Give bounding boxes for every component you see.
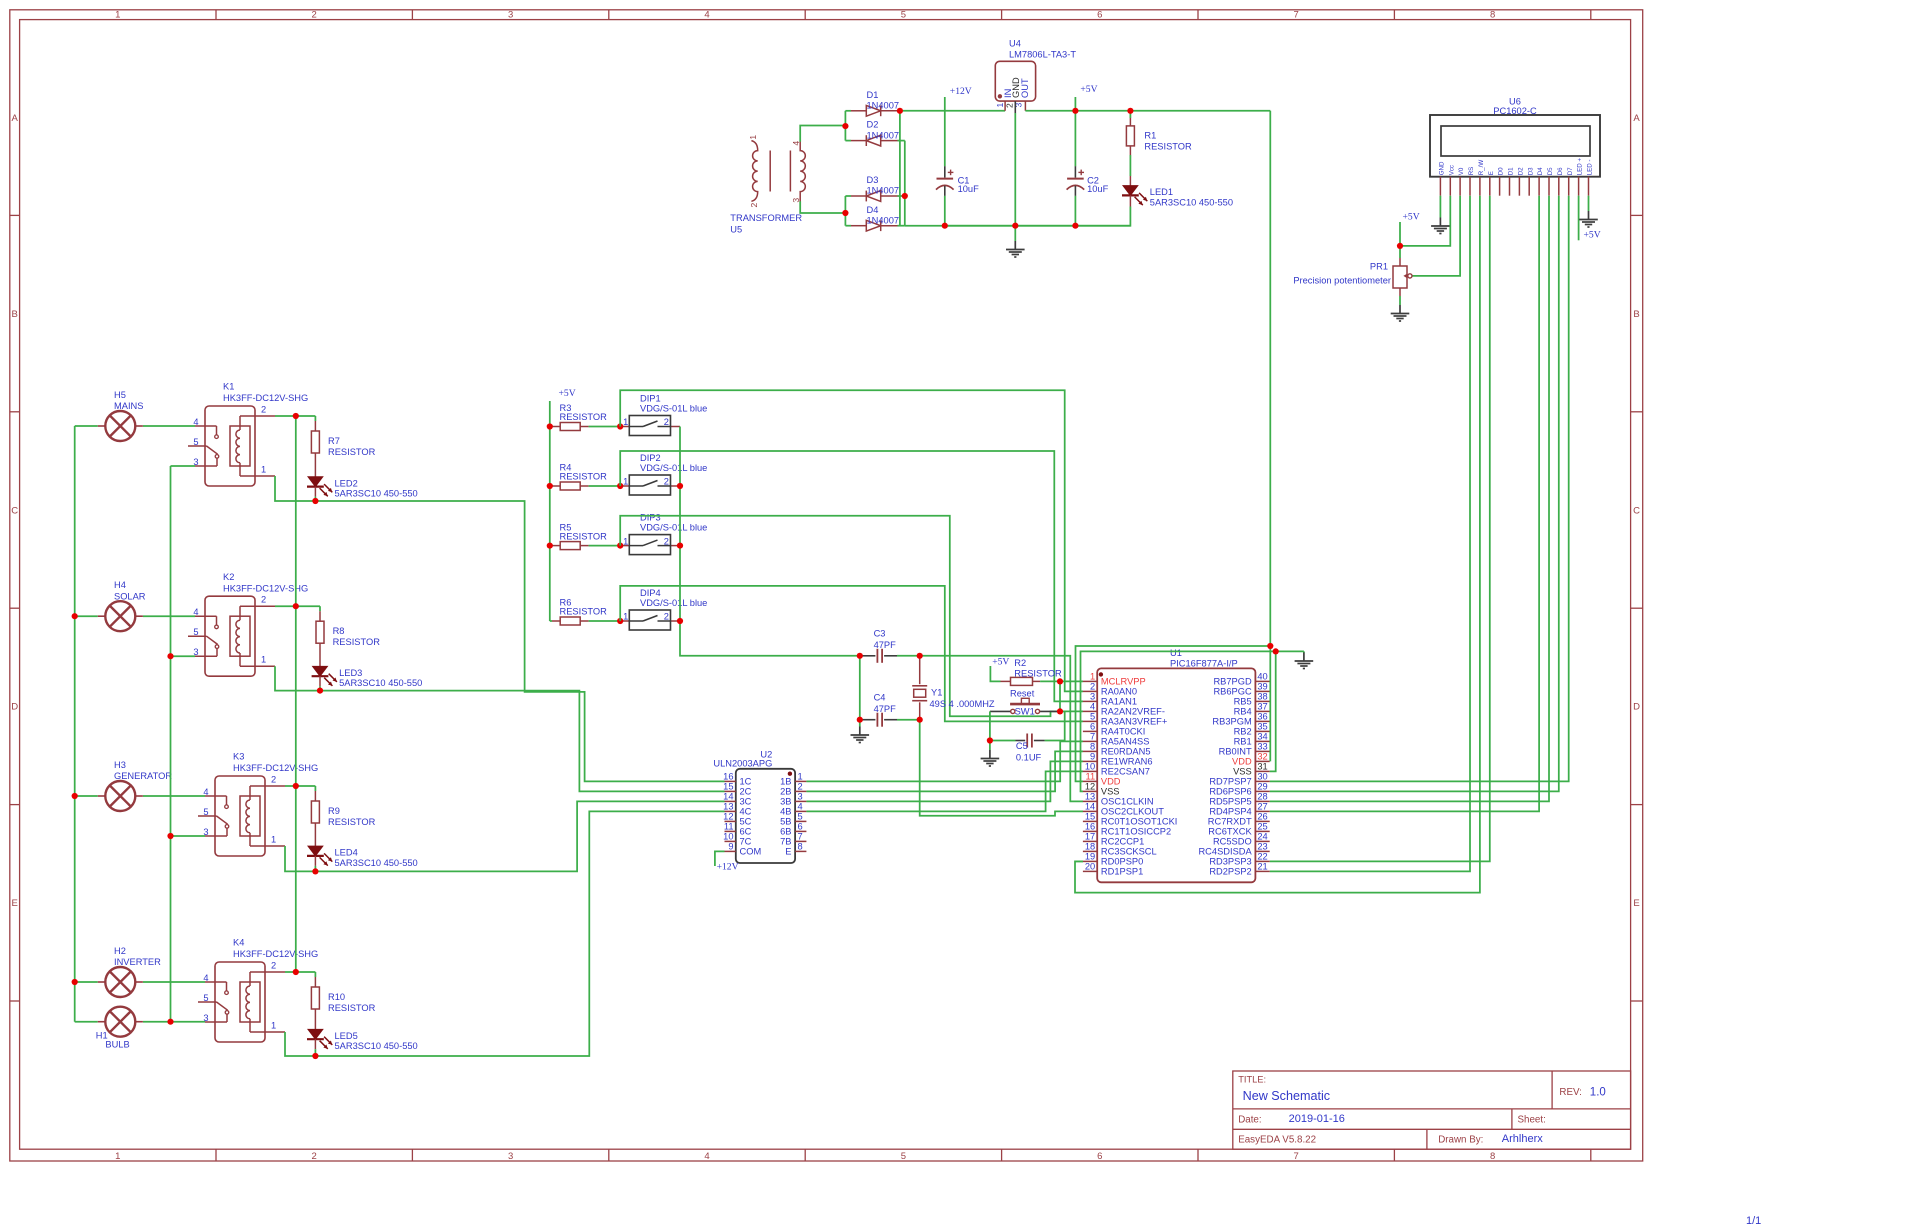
ground below C5 — [989, 750, 991, 759]
svg-text:13: 13 — [723, 802, 733, 812]
U1 pin 38 RB5 — [1255, 700, 1269, 702]
svg-text:1: 1 — [798, 772, 803, 782]
U1 pin 7 RA5AN4SS — [1083, 740, 1097, 742]
svg-text:E: E — [785, 847, 791, 857]
wire H5 to K1 pin4 — [143, 425, 195, 427]
svg-text:RB5: RB5 — [1234, 697, 1252, 707]
svg-text:PR1: PR1 — [1370, 262, 1388, 272]
transformer U5 — [751, 141, 757, 202]
U1 pin 25 RC6TXCK — [1255, 830, 1269, 832]
svg-text:1: 1 — [623, 477, 628, 487]
svg-text:U1: U1 — [1170, 648, 1182, 658]
relay K2 HK3FF-DC12V-SHG — [205, 596, 255, 676]
svg-text:4: 4 — [1090, 702, 1095, 712]
wire U6 D6 to U1 pin29 — [1270, 196, 1559, 792]
svg-text:11: 11 — [1086, 772, 1096, 782]
svg-text:1: 1 — [1090, 672, 1095, 682]
U2 pin 8 E — [795, 850, 806, 852]
svg-text:PIC16F877A-I/P: PIC16F877A-I/P — [1170, 659, 1238, 669]
svg-text:RC1T1OSICCP2: RC1T1OSICCP2 — [1101, 827, 1171, 837]
wire DIP4 pin1 over to U1 pin5 — [620, 586, 1083, 722]
U6 pin D7 — [1568, 177, 1570, 196]
svg-text:31: 31 — [1257, 762, 1267, 772]
junction dots R3-R5 +5V bus — [547, 423, 553, 429]
svg-text:2C: 2C — [740, 787, 752, 797]
U6 pin D6 — [1558, 177, 1560, 196]
svg-text:D5: D5 — [1547, 167, 1554, 175]
svg-text:R1: R1 — [1144, 131, 1156, 141]
wire R2 node to reset switch — [1059, 681, 1061, 711]
svg-text:15: 15 — [723, 782, 733, 792]
svg-text:5: 5 — [193, 627, 198, 637]
ground below C3/C4 — [859, 727, 861, 736]
svg-text:Drawn By:: Drawn By: — [1438, 1135, 1483, 1146]
svg-text:+5V: +5V — [1403, 211, 1420, 222]
junction dots DIP pin2 bus — [677, 483, 683, 489]
svg-text:8: 8 — [1490, 10, 1495, 21]
svg-text:RE0RDAN5: RE0RDAN5 — [1101, 747, 1151, 757]
IC U1 PIC16F877A-I/P — [1097, 668, 1255, 882]
svg-text:11: 11 — [724, 822, 734, 832]
wire transformer secondary bottom to bridge — [800, 201, 845, 213]
svg-text:RC0T1OSOT1CKI: RC0T1OSOT1CKI — [1101, 817, 1177, 827]
svg-text:1N4007: 1N4007 — [867, 215, 900, 225]
svg-text:V0: V0 — [1458, 167, 1465, 175]
svg-text:K3: K3 — [233, 752, 244, 762]
svg-text:RESISTOR: RESISTOR — [1014, 669, 1062, 679]
U2 pin 12 5C — [725, 820, 736, 822]
U6 pin RS — [1469, 177, 1471, 196]
svg-text:2: 2 — [798, 782, 803, 792]
svg-text:R10: R10 — [328, 992, 345, 1002]
U1 pin 15 RC0T1OSOT1CKI — [1083, 820, 1097, 822]
wire U6 Vcc to +5V node — [1400, 196, 1450, 246]
wire C5 node to ground — [989, 741, 991, 751]
U2 pin 4 4B — [795, 810, 806, 812]
junction dots U1 power — [1267, 643, 1273, 649]
title block — [1233, 1071, 1631, 1149]
svg-text:1N4007: 1N4007 — [867, 130, 900, 140]
ground below U6 LED- — [1588, 211, 1590, 220]
svg-text:RB1: RB1 — [1234, 737, 1252, 747]
wire +5V rail over U1 to pin11 — [1076, 646, 1271, 781]
svg-text:C5: C5 — [1016, 741, 1028, 751]
svg-text:8: 8 — [1090, 742, 1095, 752]
U6 pin D4 — [1538, 177, 1540, 196]
svg-text:H5: H5 — [114, 390, 126, 400]
U2 pin 16 1C — [725, 780, 736, 782]
svg-text:39: 39 — [1257, 682, 1267, 692]
svg-text:HK3FF-DC12V-SHG: HK3FF-DC12V-SHG — [223, 393, 308, 403]
net label +12V at U2 COM — [715, 851, 725, 866]
U6 pin LED + — [1578, 177, 1580, 196]
U6 pin LED - — [1588, 177, 1590, 196]
svg-text:47PF: 47PF — [874, 704, 897, 714]
svg-text:ULN2003APG: ULN2003APG — [713, 759, 772, 769]
wire gnd rail C1-C2 — [945, 225, 1076, 227]
svg-text:2: 2 — [664, 536, 669, 546]
wire K4 pin2 to R10 — [285, 971, 315, 973]
svg-text:2: 2 — [749, 203, 759, 208]
svg-text:RE2CSAN7: RE2CSAN7 — [1101, 767, 1150, 777]
diode D2 — [845, 140, 851, 142]
svg-text:RA3AN3VREF+: RA3AN3VREF+ — [1101, 717, 1167, 727]
wire U6 RS down to U1 pin21 — [1270, 196, 1470, 872]
U2 pin 2 2B — [795, 790, 806, 792]
U1 pin 13 OSC1CLKIN — [1083, 800, 1097, 802]
svg-text:TITLE:: TITLE: — [1238, 1075, 1266, 1085]
LED LED4 — [308, 846, 323, 856]
svg-text:LED2: LED2 — [335, 478, 358, 488]
resistor R7 — [314, 416, 316, 421]
U1 pin 40 RB7PGD — [1255, 680, 1269, 682]
svg-text:12: 12 — [1085, 782, 1095, 792]
svg-text:D7: D7 — [1567, 167, 1574, 175]
svg-text:1: 1 — [261, 464, 266, 474]
svg-text:9: 9 — [1090, 752, 1095, 762]
svg-text:2: 2 — [312, 1151, 317, 1162]
svg-text:RC7RXDT: RC7RXDT — [1208, 817, 1252, 827]
diode D4 — [845, 225, 851, 227]
svg-text:D1: D1 — [867, 90, 879, 100]
relay K1 HK3FF-DC12V-SHG — [205, 406, 255, 486]
svg-text:13: 13 — [1085, 792, 1095, 802]
svg-text:D2: D2 — [1518, 167, 1525, 175]
svg-text:34: 34 — [1257, 732, 1267, 742]
svg-text:32: 32 — [1257, 752, 1267, 762]
wire K4 pin1 to LED5 node — [285, 1032, 315, 1056]
svg-text:8: 8 — [1490, 1151, 1495, 1162]
svg-text:RC3SCKSCL: RC3SCKSCL — [1101, 847, 1157, 857]
junction dots power supply — [842, 123, 848, 129]
svg-text:HK3FF-DC12V-SHG: HK3FF-DC12V-SHG — [233, 763, 318, 773]
svg-text:RB4: RB4 — [1234, 707, 1252, 717]
DIP switch DIP3 VDG/S-01L blue — [620, 545, 629, 547]
svg-text:33: 33 — [1257, 742, 1267, 752]
svg-text:6: 6 — [1090, 722, 1095, 732]
svg-text:37: 37 — [1257, 702, 1267, 712]
ground below PR1 — [1399, 305, 1401, 314]
svg-text:Precision potentiometer: Precision potentiometer — [1293, 276, 1391, 286]
border frame — [10, 10, 1643, 1161]
svg-text:RB6PGC: RB6PGC — [1213, 687, 1252, 697]
net label +5V for R2 — [990, 666, 1000, 681]
svg-text:Arhlherx: Arhlherx — [1502, 1133, 1543, 1145]
net label +5V at U6 LED+ — [1578, 196, 1580, 241]
svg-text:17: 17 — [1085, 832, 1095, 842]
svg-text:RESISTOR: RESISTOR — [560, 412, 608, 422]
U6 pin D0 — [1499, 177, 1501, 196]
svg-text:DIP3: DIP3 — [640, 512, 661, 522]
svg-text:5: 5 — [193, 437, 198, 447]
DIP switch DIP4 VDG/S-01L blue — [620, 620, 629, 622]
svg-text:RESISTOR: RESISTOR — [560, 607, 608, 617]
svg-text:2: 2 — [312, 10, 317, 21]
wire DIP3 pin1 over to U1 pin4 — [620, 516, 1083, 716]
svg-text:3: 3 — [203, 1013, 208, 1023]
ground right of U1 — [1303, 651, 1305, 653]
svg-text:5: 5 — [798, 812, 803, 822]
wire gnd rail over U1 to pin12 — [1081, 651, 1276, 791]
U1 pin 18 RC3SCKSCL — [1083, 850, 1097, 852]
svg-text:3: 3 — [1090, 692, 1095, 702]
svg-text:R8: R8 — [333, 626, 345, 636]
wire H1 to K4 pin3 — [143, 1021, 205, 1023]
svg-text:DIP4: DIP4 — [640, 588, 661, 598]
svg-text:RA4T0CKI: RA4T0CKI — [1101, 727, 1145, 737]
potentiometer PR1 — [1399, 246, 1401, 258]
svg-text:22: 22 — [1257, 852, 1267, 862]
svg-text:6C: 6C — [740, 827, 752, 837]
junction dots lamp bus — [72, 613, 78, 619]
svg-text:RB2: RB2 — [1234, 727, 1252, 737]
diode D1 — [845, 110, 851, 112]
svg-text:7C: 7C — [740, 837, 752, 847]
wire U1 VSS pin31 to gnd rail — [1270, 651, 1304, 771]
svg-text:3B: 3B — [780, 797, 791, 807]
column ruler marks — [215, 10, 217, 20]
svg-text:D: D — [1633, 702, 1640, 713]
svg-text:10: 10 — [723, 832, 733, 842]
wire DIP1 pin1 over to U1 pin2 — [620, 390, 1083, 691]
LED LED2 — [308, 477, 323, 487]
wire K2 pin1 to LED3 node — [275, 666, 320, 690]
svg-text:+12V: +12V — [950, 86, 972, 97]
LED1 — [1129, 176, 1131, 186]
svg-text:3: 3 — [508, 1151, 513, 1162]
svg-text:20: 20 — [1085, 862, 1095, 872]
IC U2 ULN2003APG — [736, 769, 795, 863]
wire SW1 left to C5 node — [989, 711, 991, 740]
svg-text:4: 4 — [798, 802, 803, 812]
svg-text:36: 36 — [1257, 712, 1267, 722]
wire C4 node to ground — [859, 720, 861, 727]
svg-text:PC1602-C: PC1602-C — [1493, 106, 1537, 116]
resistor R6 — [550, 620, 552, 622]
svg-text:+5V: +5V — [559, 388, 576, 399]
U1 pin 9 RE1WRAN6 — [1083, 760, 1097, 762]
svg-text:C: C — [1633, 505, 1640, 516]
svg-text:19: 19 — [1085, 852, 1095, 862]
svg-text:38: 38 — [1257, 692, 1267, 702]
svg-text:MCLRVPP: MCLRVPP — [1101, 677, 1146, 687]
wire +5V rail right of U4 — [1025, 110, 1270, 112]
svg-text:RD3PSP3: RD3PSP3 — [1209, 857, 1251, 867]
svg-text:Y1: Y1 — [931, 688, 942, 698]
U1 pin 26 RC7RXDT — [1255, 820, 1269, 822]
U1 pin 11 VDD — [1083, 780, 1097, 782]
svg-text:9: 9 — [728, 842, 733, 852]
svg-text:Sheet:: Sheet: — [1518, 1114, 1546, 1125]
svg-text:D4: D4 — [1537, 167, 1544, 175]
svg-text:5: 5 — [901, 1151, 906, 1162]
wire U2 1B to U1 pin7 — [806, 741, 1083, 781]
svg-text:D0: D0 — [1498, 167, 1505, 175]
U1 pin 21 RD2PSP2 — [1255, 870, 1269, 872]
resistor R4 — [550, 485, 552, 487]
svg-text:D6: D6 — [1557, 167, 1564, 175]
svg-text:28: 28 — [1257, 792, 1267, 802]
svg-text:K1: K1 — [223, 382, 234, 392]
svg-text:INVERTER: INVERTER — [114, 957, 161, 967]
svg-text:HK3FF-DC12V-SHG: HK3FF-DC12V-SHG — [233, 949, 318, 959]
svg-text:RD4PSP4: RD4PSP4 — [1209, 807, 1251, 817]
svg-text:7: 7 — [1294, 10, 1299, 21]
svg-text:1C: 1C — [740, 777, 752, 787]
svg-text:1: 1 — [261, 655, 266, 665]
svg-text:15: 15 — [1085, 812, 1095, 822]
U2 pin 10 7C — [725, 840, 736, 842]
lamp H5 MAINS — [98, 425, 106, 427]
svg-text:24: 24 — [1257, 832, 1267, 842]
svg-text:40: 40 — [1257, 672, 1267, 682]
U6 pin E — [1489, 177, 1491, 196]
svg-text:R2: R2 — [1014, 658, 1026, 668]
svg-text:47PF: 47PF — [874, 640, 897, 650]
wire K2 pin2 to R8 — [275, 605, 320, 607]
junction dots crystal nodes — [857, 653, 863, 659]
svg-text:RD1PSP1: RD1PSP1 — [1101, 867, 1143, 877]
svg-text:12: 12 — [723, 812, 733, 822]
svg-text:+5V: +5V — [1584, 230, 1601, 241]
svg-text:0.1UF: 0.1UF — [1016, 753, 1042, 763]
wire K1 pin2 to R7 — [275, 415, 315, 417]
svg-text:2: 2 — [261, 595, 266, 605]
svg-text:16: 16 — [1085, 822, 1095, 832]
net label +12V — [944, 97, 946, 166]
resistor R9 — [314, 786, 316, 791]
lamp bus vertical wire — [74, 426, 76, 1022]
U4 pin 3 stub — [1024, 101, 1026, 111]
U1 pin 39 RB6PGC — [1255, 690, 1269, 692]
svg-text:VSS: VSS — [1233, 767, 1252, 777]
svg-text:7: 7 — [1090, 732, 1095, 742]
svg-text:LED5: LED5 — [335, 1031, 358, 1041]
svg-text:RESISTOR: RESISTOR — [328, 817, 376, 827]
wire C3 to C4 left vertical — [859, 656, 861, 720]
net label +5V above PR1 — [1399, 222, 1401, 246]
svg-text:MAINS: MAINS — [114, 401, 143, 411]
svg-text:3: 3 — [508, 10, 513, 21]
svg-text:2: 2 — [261, 404, 266, 414]
svg-text:5: 5 — [203, 993, 208, 1003]
svg-text:H4: H4 — [114, 580, 126, 590]
svg-text:1: 1 — [623, 536, 628, 546]
svg-text:RE1WRAN6: RE1WRAN6 — [1101, 757, 1153, 767]
svg-text:25: 25 — [1257, 822, 1267, 832]
svg-text:RD7PSP7: RD7PSP7 — [1209, 777, 1251, 787]
svg-text:5C: 5C — [740, 817, 752, 827]
U2 pin 13 4C — [725, 810, 736, 812]
U2 pin 15 2C — [725, 790, 736, 792]
svg-text:Date:: Date: — [1238, 1114, 1261, 1125]
svg-text:RESISTOR: RESISTOR — [560, 531, 608, 541]
svg-text:LED +: LED + — [1577, 158, 1584, 176]
svg-text:New Schematic: New Schematic — [1243, 1089, 1331, 1103]
svg-text:4: 4 — [704, 1151, 709, 1162]
svg-text:RESISTOR: RESISTOR — [333, 637, 381, 647]
svg-text:VDG/S-01L blue: VDG/S-01L blue — [640, 404, 707, 414]
svg-text:C4: C4 — [874, 693, 886, 703]
svg-text:7B: 7B — [780, 837, 791, 847]
U1 pin 17 RC2CCP1 — [1083, 840, 1097, 842]
svg-text:COM: COM — [740, 847, 762, 857]
wire Y1 bottom to U1 pin14 OSC2 — [920, 720, 1083, 816]
U1 pin 16 RC1T1OSICCP2 — [1083, 830, 1097, 832]
svg-text:4: 4 — [203, 973, 208, 983]
wire DIP pin2 bus vertical to C3 node — [680, 427, 860, 656]
svg-text:1N4007: 1N4007 — [867, 186, 900, 196]
U1 pin 31 VSS — [1255, 770, 1269, 772]
svg-text:D: D — [11, 702, 18, 713]
svg-text:26: 26 — [1257, 812, 1267, 822]
wire K relay pin2 bus vertical — [295, 416, 297, 972]
svg-text:RB7PGD: RB7PGD — [1213, 677, 1252, 687]
resistor R8 — [319, 606, 321, 611]
capacitor C4 — [860, 719, 876, 721]
svg-text:RC2CCP1: RC2CCP1 — [1101, 837, 1144, 847]
svg-text:RB3PGM: RB3PGM — [1212, 717, 1251, 727]
svg-text:DIP2: DIP2 — [640, 453, 661, 463]
svg-text:E: E — [1488, 171, 1495, 175]
U1 pin 20 RD1PSP1 — [1083, 870, 1097, 872]
row ruler marks — [10, 214, 20, 216]
svg-text:U5: U5 — [730, 225, 742, 235]
capacitor C2 — [1074, 111, 1076, 167]
U6 pin R_/W — [1479, 177, 1481, 196]
svg-text:SOLAR: SOLAR — [114, 591, 146, 601]
svg-text:RESISTOR: RESISTOR — [560, 472, 608, 482]
svg-text:2B: 2B — [780, 787, 791, 797]
ground below U6 GND — [1439, 218, 1441, 227]
svg-text:C3: C3 — [874, 629, 886, 639]
svg-text:1: 1 — [623, 417, 628, 427]
svg-text:5: 5 — [1090, 712, 1095, 722]
svg-text:2: 2 — [1090, 682, 1095, 692]
junction dots DIP pin1 — [617, 423, 623, 429]
svg-text:2019-01-16: 2019-01-16 — [1289, 1113, 1345, 1125]
U1 pin 19 RD0PSP0 — [1083, 860, 1097, 862]
wire Y1 top to U1 pin13 OSC1 — [920, 656, 1083, 802]
svg-text:VDD: VDD — [1101, 777, 1121, 787]
svg-text:D1: D1 — [1508, 167, 1515, 175]
svg-text:RA5AN4SS: RA5AN4SS — [1101, 737, 1150, 747]
wire LED4 node to U2 3C — [315, 801, 724, 871]
U2 pin 14 3C — [725, 800, 736, 802]
svg-text:BULB: BULB — [105, 1040, 129, 1050]
svg-text:4: 4 — [193, 417, 198, 427]
svg-text:GENERATOR: GENERATOR — [114, 771, 172, 781]
wire +5V vertical to U1 VDD pin32 — [1269, 111, 1271, 762]
U1 pin 22 RD3PSP3 — [1255, 860, 1269, 862]
svg-text:2: 2 — [271, 960, 276, 970]
wire transformer secondary top to bridge — [800, 126, 845, 142]
svg-text:K2: K2 — [223, 572, 234, 582]
wire D1 output vertical — [899, 111, 901, 226]
svg-text:23: 23 — [1257, 842, 1267, 852]
svg-text:RD2PSP2: RD2PSP2 — [1209, 867, 1251, 877]
U2 pin 7 7B — [795, 840, 806, 842]
svg-text:5AR3SC10 450-550: 5AR3SC10 450-550 — [1150, 198, 1233, 208]
svg-text:1: 1 — [271, 1020, 276, 1030]
U1 pin 2 RA0AN0 — [1083, 690, 1097, 692]
U4 pin 1 stub — [1004, 101, 1006, 111]
svg-text:5AR3SC10 450-550: 5AR3SC10 450-550 — [335, 858, 418, 868]
svg-text:U4: U4 — [1009, 39, 1021, 49]
junction dots pin2 bus — [293, 413, 299, 419]
capacitor C3 — [860, 655, 876, 657]
svg-text:27: 27 — [1257, 802, 1267, 812]
